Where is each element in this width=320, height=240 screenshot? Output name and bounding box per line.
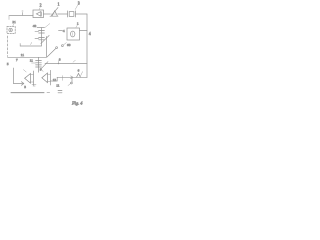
equals mark xyxy=(58,91,62,93)
leader 2 xyxy=(39,8,40,11)
C1 top bar xyxy=(37,27,44,29)
wire X1 to Y1 xyxy=(58,13,67,15)
tick diagonal xyxy=(68,84,70,86)
C2 plates xyxy=(36,61,42,67)
T2 stubs xyxy=(48,74,51,81)
stub left C2 xyxy=(32,62,36,64)
meter ellipse xyxy=(71,31,75,37)
bottom rule dash xyxy=(47,92,50,94)
stub left of meter xyxy=(59,30,63,32)
leader label 10 xyxy=(76,25,78,28)
meter inner tick xyxy=(72,33,74,36)
label tick above wire xyxy=(31,42,32,44)
stub down from bottom wire xyxy=(71,77,73,82)
svg-text:5: 5 xyxy=(7,62,9,66)
svg-text:8: 8 xyxy=(59,57,61,61)
node 5 top xyxy=(22,11,23,16)
C1 plates lower xyxy=(39,37,45,39)
wire left tick up xyxy=(19,44,21,46)
contact circle xyxy=(71,82,73,84)
switch contact a xyxy=(56,47,58,49)
stubs left of C1 xyxy=(35,32,39,39)
leader 21 xyxy=(13,24,14,26)
wire meter to rail xyxy=(80,30,88,32)
svg-text:4: 4 xyxy=(63,29,65,33)
arrow lower-left vertical xyxy=(13,68,15,84)
arrowhead on bottom wire xyxy=(71,76,73,79)
svg-text:Fig. 4: Fig. 4 xyxy=(71,100,83,105)
svg-text:4: 4 xyxy=(89,32,91,36)
wire top input xyxy=(9,15,33,17)
wire y57 xyxy=(8,56,47,58)
arrow mark on wire xyxy=(73,60,75,62)
microphone circle xyxy=(9,28,12,31)
capacitor stack C1 vertical xyxy=(41,28,43,46)
svg-text:60: 60 xyxy=(67,43,71,47)
tick on lower wire xyxy=(62,76,64,81)
T1 stubs xyxy=(31,75,34,82)
dashed drop from mic xyxy=(7,36,9,57)
wire Y1 to right rail xyxy=(76,13,87,15)
svg-text:7: 7 xyxy=(16,58,18,62)
svg-text:1: 1 xyxy=(77,21,79,25)
svg-text:13: 13 xyxy=(53,78,57,82)
svg-text:11: 11 xyxy=(56,83,60,87)
meter box U3 xyxy=(67,28,80,40)
svg-text:2: 2 xyxy=(40,3,42,7)
label 3 leader xyxy=(75,5,78,10)
svg-text:21: 21 xyxy=(12,20,16,24)
svg-text:3: 3 xyxy=(24,85,26,89)
svg-text:11: 11 xyxy=(30,59,34,63)
arrow lower-left horizontal xyxy=(14,83,24,85)
svg-text:6: 6 xyxy=(78,68,80,72)
vertical rail mid xyxy=(46,37,48,58)
D1 arrow xyxy=(80,72,82,77)
amplifier U2 triangle xyxy=(36,12,41,17)
T1 ground marks xyxy=(32,84,36,86)
diode D1 on bottom xyxy=(77,73,81,77)
wire through X1 xyxy=(50,13,58,15)
wire T2 out xyxy=(51,80,58,82)
switch contact b xyxy=(62,45,64,47)
transducer T2 triangle xyxy=(42,73,48,83)
junction node xyxy=(58,63,59,64)
arrowhead xyxy=(21,82,23,86)
node tick xyxy=(58,61,60,64)
svg-text:40: 40 xyxy=(33,24,37,28)
arrow through C1 xyxy=(41,35,49,43)
wire U2 to X1 xyxy=(44,13,51,15)
crystal Y1 xyxy=(68,11,76,17)
wire y63.5 xyxy=(45,63,87,65)
T1 top leader xyxy=(23,70,26,72)
C1 plates upper xyxy=(39,31,45,33)
right rail vertical xyxy=(86,14,88,78)
switch arm S1 xyxy=(47,49,56,57)
transducer T2 bar xyxy=(50,70,52,85)
wire mid y46 xyxy=(20,45,41,47)
contact b tail xyxy=(63,43,66,45)
wire input drop xyxy=(8,16,10,20)
transducer T1 bar xyxy=(33,71,35,85)
jog vertical xyxy=(56,77,58,81)
svg-text:3: 3 xyxy=(78,2,80,6)
svg-text:11: 11 xyxy=(21,53,25,57)
leader to label top-right xyxy=(45,24,50,28)
arrow through X1 xyxy=(51,8,58,16)
svg-text:1: 1 xyxy=(58,3,60,7)
amplifier U2 box xyxy=(33,10,44,18)
capacitor C2 mid vertical xyxy=(38,57,40,72)
transducer T1 triangle xyxy=(25,74,31,84)
variable element X1 xyxy=(50,11,58,16)
T2 top leader xyxy=(41,69,43,71)
microphone M1 dashed box xyxy=(7,27,15,34)
wire bottom to rail xyxy=(57,76,87,78)
arrow through C2 xyxy=(41,62,48,69)
bottom rule xyxy=(11,92,44,94)
